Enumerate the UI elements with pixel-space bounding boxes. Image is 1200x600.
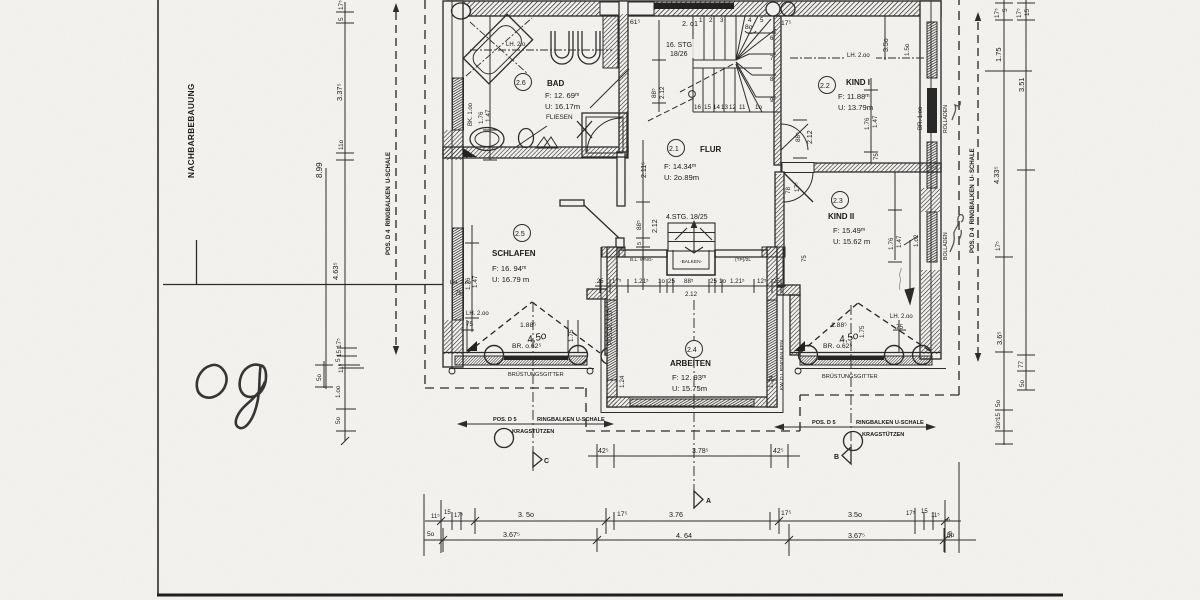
north arrow kind II (899, 236, 918, 304)
BAD door swing (590, 69, 629, 108)
property tick (196, 240, 198, 284)
LH dashed line KIND I (790, 57, 926, 59)
right dim labels (992, 8, 1031, 429)
room 2.5 SCHLAFEN (492, 225, 536, 285)
SCHLAFEN south-east step wall (587, 289, 617, 355)
FLUR / SCHLAFEN wall with door (560, 152, 625, 248)
POS D4 dashed line left (393, 3, 399, 355)
stair left wall line (692, 16, 694, 112)
east wall (767, 247, 777, 407)
BAD bottom wall (443, 147, 628, 158)
right dim chain R2 (1025, 0, 1027, 390)
room 2.6 BAD (515, 74, 581, 122)
handwriting og (197, 365, 266, 429)
upper treads (703, 16, 705, 60)
property line (163, 284, 448, 286)
roof overhang dashed outline (425, 0, 959, 431)
window SCHLAFEN in left wall (453, 228, 464, 320)
BALKEN notch (667, 250, 715, 275)
sheet frame left (157, 0, 159, 596)
stair outline (692, 16, 694, 60)
handwriting Mar right margin (950, 101, 963, 252)
west wall (607, 247, 617, 407)
left column circle (495, 429, 514, 448)
left dim labels (316, 0, 345, 424)
radiator zigzag (536, 137, 558, 148)
POS D4 dashed arrow right (975, 12, 981, 362)
top dim labels (630, 19, 792, 33)
left exterior wall (443, 1, 497, 367)
window BAD in left wall (453, 78, 464, 130)
top exterior wall (447, 1, 941, 19)
section marker B (842, 447, 851, 464)
room 2.3 KIND II (828, 192, 870, 247)
KIND II balcony sill (790, 341, 946, 374)
washbasin BAD (470, 128, 504, 151)
dim row 1 (425, 520, 961, 522)
stair labels (665, 39, 702, 58)
right flight treads (747, 32, 776, 34)
bidet (578, 31, 600, 64)
FLUR / KIND II wall (775, 172, 784, 287)
door leaf SCHLAFEN (584, 205, 619, 238)
walking line (680, 63, 735, 92)
tub centerlines (466, 18, 532, 76)
WC (551, 31, 573, 64)
room 2.1 FLUR (664, 140, 722, 183)
bathtub (463, 14, 532, 83)
left overall dim line 8.99 (325, 168, 327, 389)
SCHLAFEN window dim line (465, 225, 479, 332)
left pos d5 arrow line (457, 421, 614, 428)
dim row 2 (424, 539, 961, 541)
centerline through ARBEITEN (693, 300, 695, 340)
window dim line BAD (489, 16, 491, 160)
winder fan upper (736, 16, 745, 60)
section marker A (694, 491, 703, 508)
staircase 16 STG (648, 16, 780, 121)
plumbing wall (603, 16, 618, 68)
outer sill line (601, 412, 783, 414)
left segment dim line (344, 2, 346, 441)
BAD right wall (619, 1, 628, 152)
window KIND I lower (927, 142, 937, 188)
corner circle overlay top-left (452, 3, 471, 19)
right column circle (844, 432, 863, 451)
window KIND II (927, 212, 937, 262)
dim line between BAD and stair (652, 20, 666, 112)
lower flight (693, 67, 762, 69)
wall fill pieces (444, 130, 463, 160)
right dim chain R1 (1003, 0, 1005, 445)
door swing diagonal over sink (513, 126, 547, 149)
tick slashes (437, 517, 445, 525)
right exterior wall (918, 1, 949, 359)
wall between SCHLAFEN and FLUR upper (617, 152, 625, 206)
room 2.4 ARBEITEN (670, 341, 711, 394)
south wall (607, 397, 777, 407)
bay wall hatches (608, 248, 617, 301)
KIND I bottom wall with door (781, 163, 941, 203)
KIND II south-west corner walls (775, 285, 800, 355)
dark wall chunk (927, 88, 937, 133)
stair right wall (774, 16, 781, 165)
door KIND I (781, 124, 808, 150)
door leaf KIND II (783, 172, 813, 202)
SCHLAFEN balcony sill (443, 341, 617, 374)
balcony columns (504, 356, 568, 361)
FLUR south wall pieces / ARBEITEN north opening (602, 247, 785, 275)
room 2.2 KIND I (819, 77, 874, 113)
LH line in BAD (470, 49, 612, 51)
window KIND I top in right wall (927, 22, 937, 78)
ARBEITEN bay walls (601, 247, 783, 413)
sheet frame bottom (157, 594, 1063, 597)
right pos d5 arrow line (774, 424, 936, 431)
shower (577, 113, 627, 157)
bottom-right small dim chain (958, 462, 960, 553)
bidet 2 (519, 129, 534, 148)
section marker C (533, 452, 542, 467)
FLUR dim line x643 (636, 140, 650, 290)
